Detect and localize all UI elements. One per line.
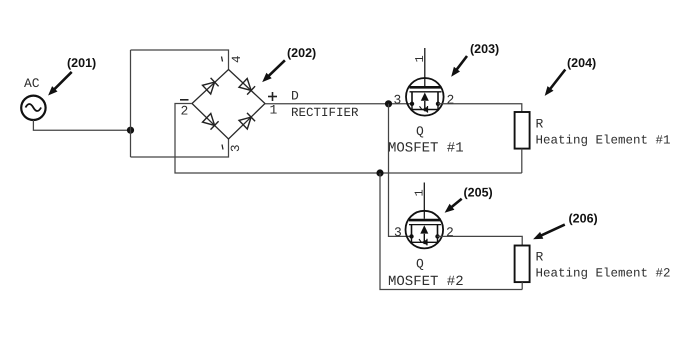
ac source AC (201) xyxy=(21,96,45,120)
bridge rectifier D (202) diamond xyxy=(192,70,265,140)
tick by pin 3 xyxy=(222,145,223,150)
wire vertical left bus xyxy=(130,50,132,157)
svg-text:1: 1 xyxy=(270,103,278,118)
contact dots xyxy=(409,234,413,238)
wire bridge plus (pin1) D output to MOSFET#1 xyxy=(265,103,412,105)
svg-text:1: 1 xyxy=(413,189,427,196)
svg-text:(204): (204) xyxy=(567,56,596,70)
svg-text:D: D xyxy=(291,89,299,104)
resistor R heating element #2 (206) xyxy=(515,246,530,283)
svg-text:RECTIFIER: RECTIFIER xyxy=(291,106,359,120)
node junction dot return line xyxy=(376,169,383,176)
resistor R heating element #1 (204) xyxy=(515,112,530,149)
gate lead xyxy=(423,183,425,219)
node junction dot A (AC to bridge) xyxy=(127,127,134,134)
svg-text:R: R xyxy=(536,250,544,265)
body diode small xyxy=(421,240,427,245)
body arrow up xyxy=(421,93,429,101)
bottom link xyxy=(412,104,438,110)
gate lead xyxy=(424,48,426,86)
diode D-topright (anode top, cathode right) xyxy=(239,79,255,95)
svg-text:2: 2 xyxy=(447,93,455,108)
body diode small xyxy=(422,107,428,112)
svg-text:(201): (201) xyxy=(67,56,96,70)
svg-text:3: 3 xyxy=(394,93,402,108)
diode D-bottomright (anode bottom, cathode right) xyxy=(239,113,255,129)
MOSFET Q #2 (205) xyxy=(406,183,444,249)
channel line xyxy=(410,91,442,93)
wire top to bridge pin 4 xyxy=(131,50,229,70)
svg-text:(202): (202) xyxy=(287,46,316,60)
arrow to bridge xyxy=(262,60,285,82)
wire bottom to bridge pin 3 xyxy=(131,139,229,157)
svg-text:4: 4 xyxy=(230,55,244,63)
arrow to heating element 1 xyxy=(545,70,566,96)
left contact stem xyxy=(411,92,413,104)
wire heating element 1 to return xyxy=(521,149,523,173)
diode D-bottomleft (anode left, cathode bottom) xyxy=(203,114,219,130)
MOSFET Q #1 (203) xyxy=(406,48,444,116)
svg-text:Q: Q xyxy=(416,124,424,139)
channel line xyxy=(409,224,441,226)
arrow to heating element 2 xyxy=(533,225,565,240)
wire MOSFET#2 return down xyxy=(380,173,522,290)
tick by pin 4 xyxy=(222,57,223,62)
left contact stem xyxy=(411,225,413,237)
arrow to MOSFET#1 xyxy=(451,56,467,77)
svg-text:(206): (206) xyxy=(569,212,598,226)
svg-text:(205): (205) xyxy=(464,186,493,200)
diode D-topleft (anode left, cathode top) xyxy=(203,78,219,94)
svg-text:Heating Element #2: Heating Element #2 xyxy=(536,267,671,281)
svg-text:Q: Q xyxy=(416,257,424,272)
svg-text:1: 1 xyxy=(413,55,427,62)
svg-text:MOSFET #1: MOSFET #1 xyxy=(388,141,464,157)
body arrow up xyxy=(420,225,428,233)
svg-text:AC: AC xyxy=(24,76,40,91)
right contact stem xyxy=(437,92,439,104)
wire AC source to junction xyxy=(33,120,130,130)
wire MOSFET#2 pin2 to heating element 2 xyxy=(438,236,523,245)
wire bridge minus (pin2) to return line xyxy=(175,104,522,174)
arrow to AC source xyxy=(48,72,72,96)
wire D junction down to MOSFET#2 xyxy=(389,104,412,237)
wire heating element 2 to bottom return xyxy=(521,282,523,289)
svg-text:2: 2 xyxy=(446,225,454,240)
contact dots xyxy=(410,102,414,106)
gate bar xyxy=(410,86,442,89)
svg-text:2: 2 xyxy=(181,104,189,119)
arrow to MOSFET#2 xyxy=(445,199,462,213)
svg-text:Heating Element #1: Heating Element #1 xyxy=(536,134,671,148)
svg-text:3: 3 xyxy=(394,225,402,240)
bottom link xyxy=(412,236,438,242)
svg-text:R: R xyxy=(536,117,544,132)
svg-text:MOSFET #2: MOSFET #2 xyxy=(388,274,464,290)
svg-text:(203): (203) xyxy=(470,42,499,56)
svg-text:3: 3 xyxy=(229,144,243,152)
node junction dot D output xyxy=(385,100,392,107)
wire MOSFET#1 pin2 to heating element 1 xyxy=(438,104,522,112)
gate bar xyxy=(409,219,441,222)
right contact stem xyxy=(437,225,439,237)
